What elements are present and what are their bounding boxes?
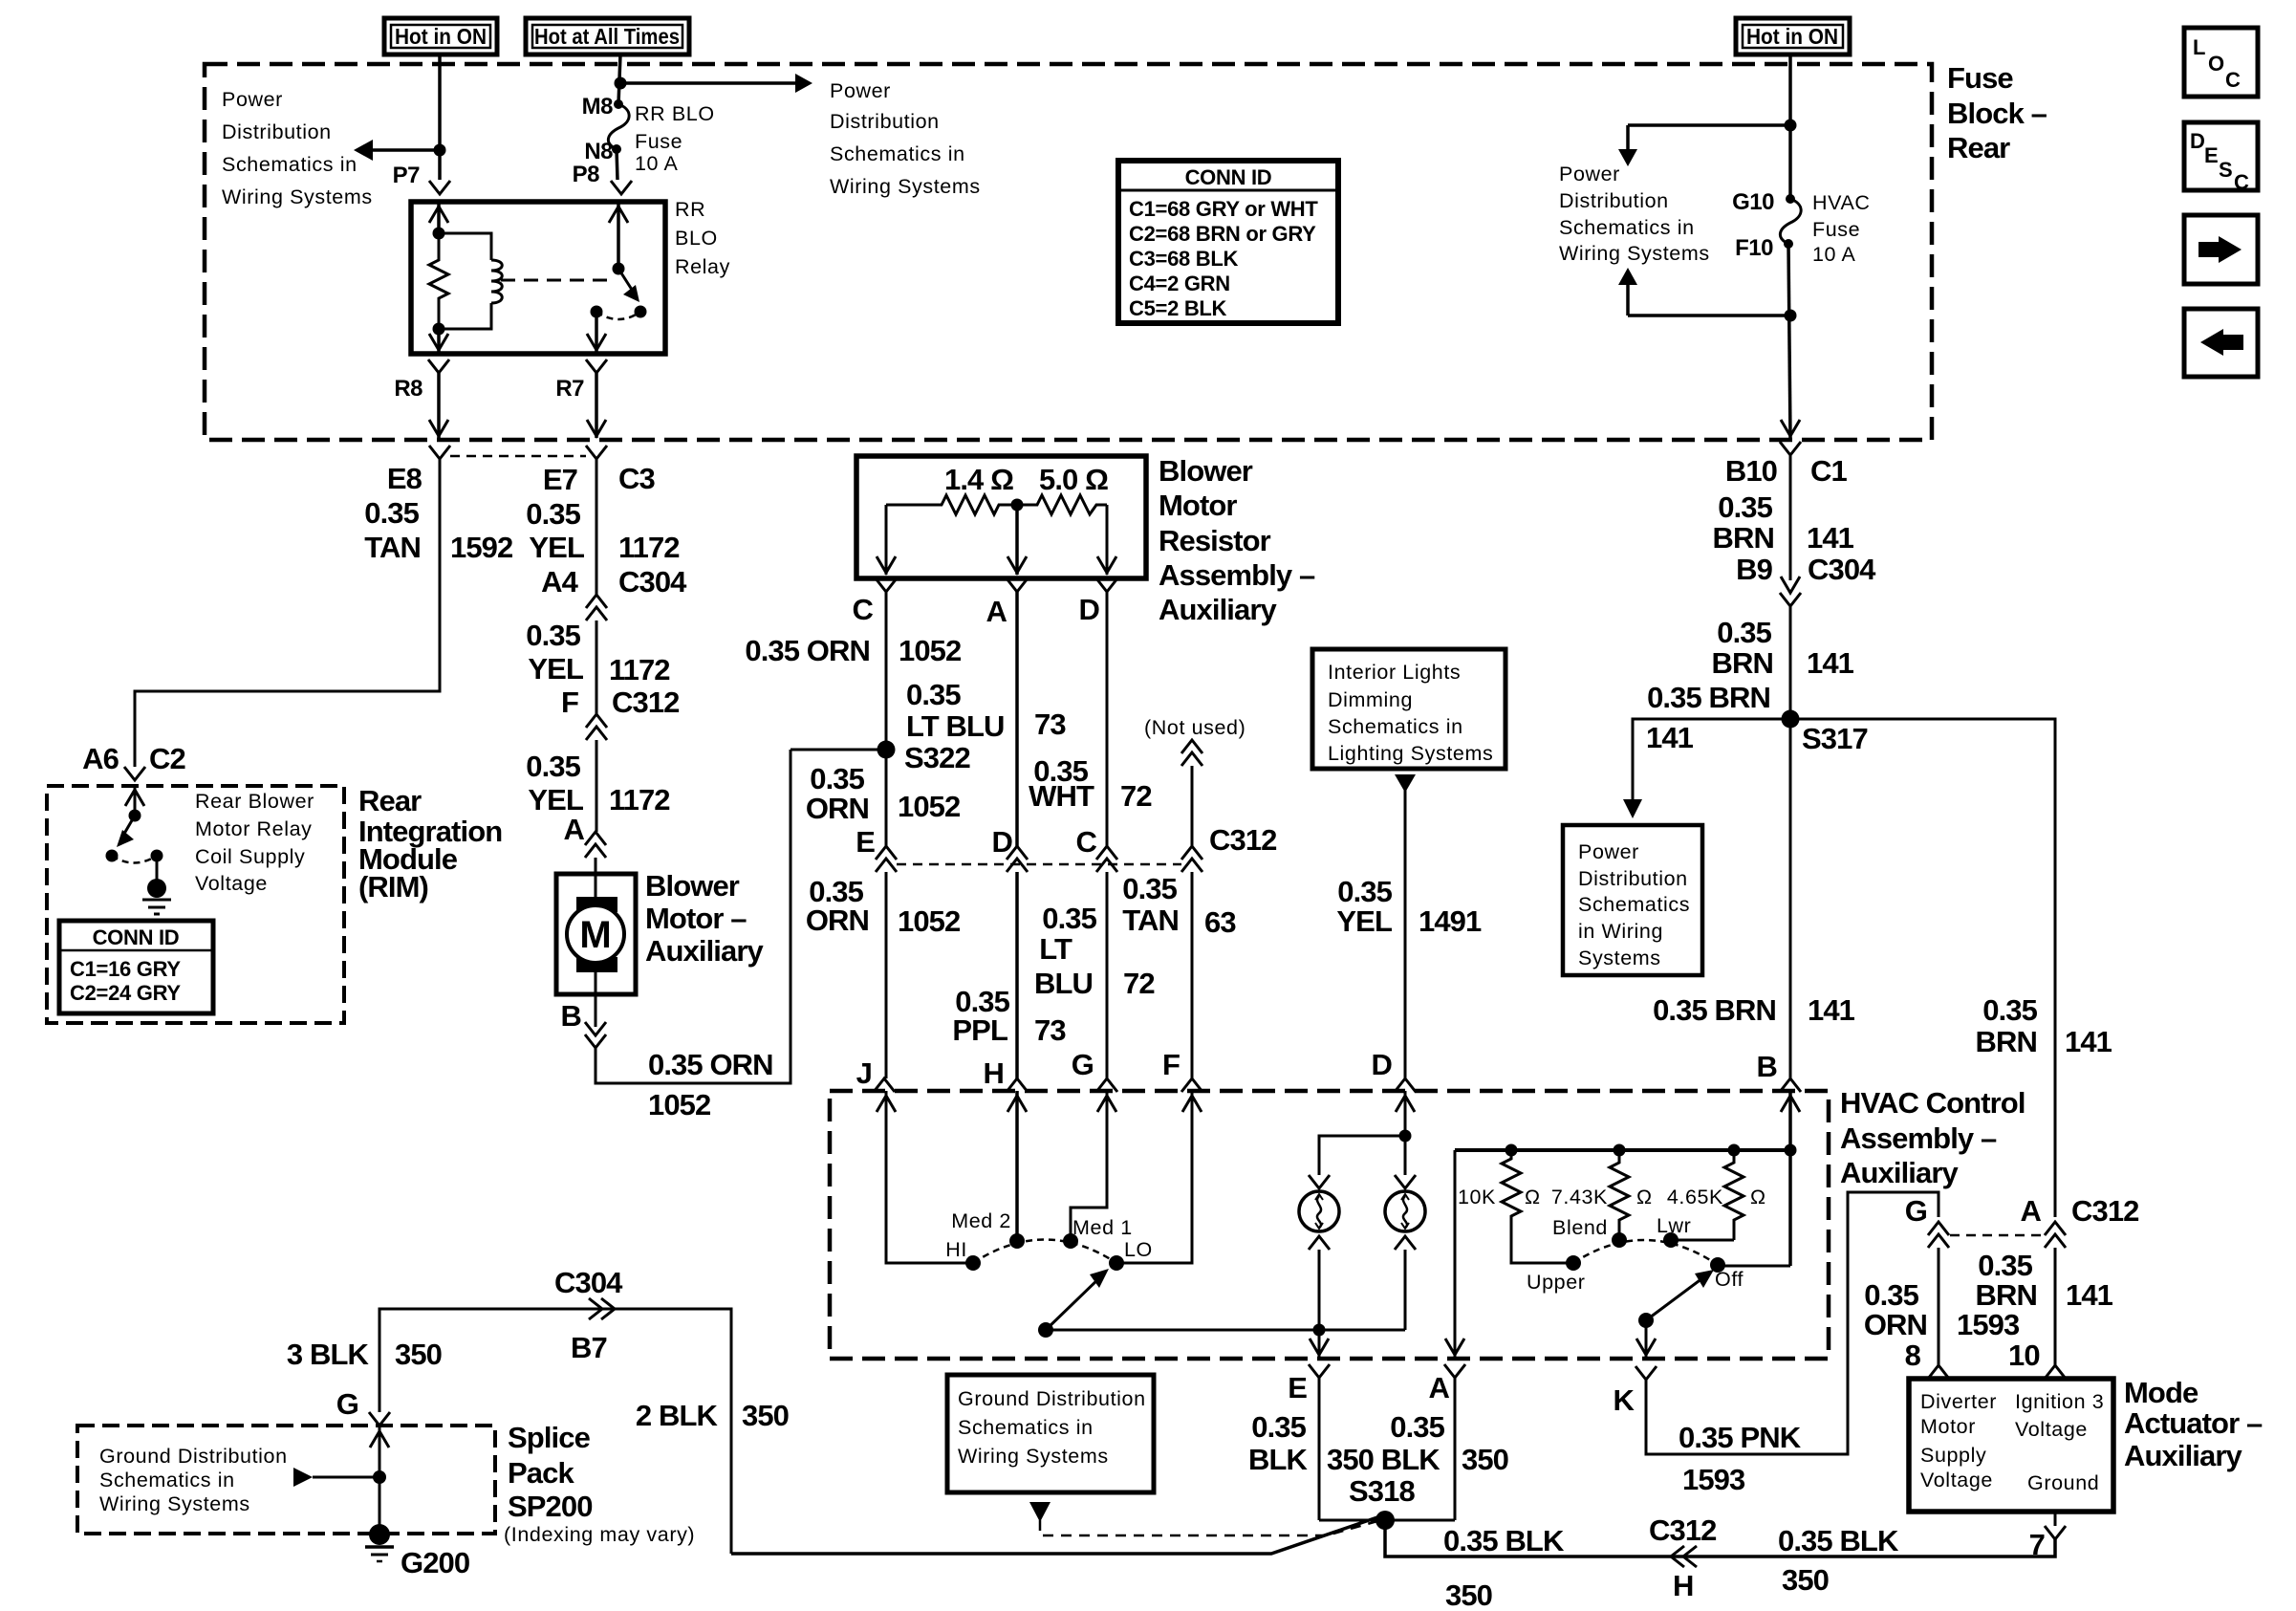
svg-text:Auxiliary: Auxiliary <box>1159 593 1278 626</box>
node splice G200 feed <box>373 1470 386 1484</box>
wire TAN 63 to HVAC F <box>1191 872 1194 1078</box>
switch fan selector arm <box>1038 1322 1053 1338</box>
svg-text:10 A: 10 A <box>1812 243 1856 266</box>
relay coil top node <box>433 228 445 240</box>
wire Hot in ON to relay P7 <box>438 54 442 180</box>
relay output contact node <box>591 306 603 318</box>
wire S322 branch to blower run <box>791 749 886 751</box>
wire ORN 8 to mode actuator <box>1938 1248 1940 1365</box>
svg-text:Hot in ON: Hot in ON <box>1746 24 1838 49</box>
wire Hot in ON right down <box>1788 54 1792 199</box>
connector chevron F <box>1181 1078 1202 1092</box>
svg-text:Wiring Systems: Wiring Systems <box>222 185 373 208</box>
svg-text:Ω: Ω <box>1525 1186 1541 1208</box>
node resistor tap A <box>1011 499 1024 512</box>
connector C304 right inline <box>1781 577 1800 593</box>
ground G200 symbol <box>369 1524 390 1545</box>
svg-text:350: 350 <box>1782 1563 1829 1597</box>
connector chevron E8 <box>429 446 450 459</box>
svg-text:0.35: 0.35 <box>1390 1410 1444 1444</box>
wire to lamp 1 <box>1319 1136 1405 1175</box>
contact node left <box>106 850 119 862</box>
wire bus left drop to A pin <box>1454 1150 1457 1357</box>
resistor relay coil shunt <box>429 233 448 329</box>
wire BRN 141 B10 to C304 <box>1789 455 1792 580</box>
svg-text:Ground Distribution: Ground Distribution <box>958 1387 1146 1410</box>
solid arrowhead armature <box>623 285 639 302</box>
svg-text:Pack: Pack <box>508 1456 574 1490</box>
connector chevron resistor D <box>1096 578 1117 592</box>
wire YEL 1172 C304 to C312 <box>596 620 598 714</box>
node Blend contact <box>1612 1232 1627 1248</box>
wire lamp1 to common <box>1318 1250 1321 1330</box>
svg-text:0.35: 0.35 <box>1251 1410 1306 1444</box>
svg-text:1592: 1592 <box>450 531 512 564</box>
svg-text:ORN: ORN <box>806 903 869 937</box>
wire 4.65K to Lwr <box>1671 1239 1734 1242</box>
node splice S318 <box>1375 1511 1395 1530</box>
connector chevron lamp1 top <box>1309 1175 1330 1188</box>
svg-text:C312: C312 <box>612 686 680 719</box>
svg-text:YEL: YEL <box>529 531 584 564</box>
svg-text:F10: F10 <box>1735 235 1773 261</box>
svg-text:141: 141 <box>1807 646 1854 680</box>
svg-text:R8: R8 <box>394 376 422 402</box>
wire branch right to power distribution arrow <box>620 81 797 85</box>
wire E BLK 350 to S318 <box>1318 1378 1321 1520</box>
svg-text:Lwr: Lwr <box>1657 1214 1691 1237</box>
dashed arc driver contacts <box>112 856 157 863</box>
wire G inside HVAC to Med1 <box>1071 1091 1107 1241</box>
connector C at C312 double chevron <box>1096 846 1117 860</box>
wire B inside HVAC to resistor bus <box>1788 1091 1792 1266</box>
connector chevron lamp1 bottom <box>1309 1236 1330 1250</box>
wire contact to ground ball <box>156 856 159 882</box>
svg-text:1052: 1052 <box>898 790 960 823</box>
Hot in ON box left <box>384 18 497 54</box>
svg-text:HVAC: HVAC <box>1812 191 1871 214</box>
left arrow reference box <box>2184 309 2258 377</box>
svg-text:A: A <box>2021 1194 2042 1228</box>
svg-text:1172: 1172 <box>609 783 670 816</box>
wire ORN 1052 resistor C down <box>885 592 888 846</box>
connector chevron lamp2 bottom <box>1395 1236 1416 1250</box>
svg-text:Hot in ON: Hot in ON <box>395 24 487 49</box>
svg-text:Wiring Systems: Wiring Systems <box>958 1445 1109 1468</box>
svg-text:141: 141 <box>1646 721 1694 754</box>
svg-text:Motor –: Motor – <box>645 902 747 935</box>
svg-text:LO: LO <box>1124 1238 1153 1261</box>
node splice S317 <box>1782 710 1800 729</box>
svg-text:Distribution: Distribution <box>830 110 940 133</box>
svg-text:Distribution: Distribution <box>1578 867 1688 890</box>
connector chevron J <box>874 1078 895 1092</box>
DESC reference box <box>2184 122 2258 190</box>
svg-text:Hot at All Times: Hot at All Times <box>534 24 680 49</box>
node junction on P7 wire <box>434 144 446 157</box>
svg-text:HI: HI <box>945 1238 967 1261</box>
wire F10 down to fuse block edge <box>1788 244 1790 438</box>
relay armature arm <box>618 269 634 293</box>
wire 3 BLK 350 G to C304 B7 run <box>379 1309 731 1554</box>
connector chevron G splice pack <box>369 1412 390 1426</box>
svg-text:Rear Blower: Rear Blower <box>195 790 314 813</box>
node bus 7.43K <box>1614 1144 1626 1157</box>
relay coil bottom node <box>433 323 445 336</box>
wire Hot at All Times down <box>618 54 620 104</box>
connector chevron R7 <box>586 359 607 373</box>
svg-text:C304: C304 <box>618 565 687 599</box>
svg-text:Ignition 3: Ignition 3 <box>2015 1390 2104 1413</box>
svg-text:Auxiliary: Auxiliary <box>2124 1439 2243 1472</box>
svg-text:Voltage: Voltage <box>195 872 268 895</box>
svg-text:Lighting Systems: Lighting Systems <box>1328 742 1493 765</box>
svg-text:0.35: 0.35 <box>1718 490 1772 524</box>
connector chevron lamp2 top <box>1395 1175 1416 1188</box>
svg-text:0.35: 0.35 <box>364 496 419 530</box>
motor brush bottom <box>576 957 617 972</box>
svg-text:M8: M8 <box>582 94 613 120</box>
svg-text:1.4 Ω: 1.4 Ω <box>944 463 1013 496</box>
svg-text:LT BLU: LT BLU <box>906 709 1005 743</box>
svg-text:0.35 BRN: 0.35 BRN <box>1647 681 1770 714</box>
wire E8 TAN 1592 to RIM A6 <box>135 459 440 767</box>
motor brush top <box>576 897 617 912</box>
node junction above G10 <box>1785 120 1797 132</box>
inductor relay coil humps <box>491 260 502 303</box>
mode actuator auxiliary box <box>1909 1379 2113 1512</box>
node splice S322 <box>877 741 896 759</box>
svg-text:TAN: TAN <box>1122 903 1179 937</box>
svg-text:C4=2 GRN: C4=2 GRN <box>1129 272 1230 295</box>
svg-text:in Wiring: in Wiring <box>1578 920 1663 943</box>
lamp interior illumination 1 <box>1299 1191 1339 1231</box>
node LO contact <box>1109 1255 1124 1271</box>
svg-text:Blend: Blend <box>1552 1216 1608 1239</box>
svg-text:K: K <box>1614 1383 1635 1417</box>
svg-text:Schematics in: Schematics in <box>1328 715 1463 738</box>
svg-text:0.35: 0.35 <box>1337 875 1392 908</box>
svg-text:L: L <box>2193 35 2205 59</box>
dashed connector line C312 middle <box>897 863 1181 866</box>
svg-text:Schematics in: Schematics in <box>222 153 357 176</box>
wire G down to G200 <box>379 1426 381 1528</box>
motor M circle <box>567 905 624 963</box>
svg-text:C: C <box>2234 170 2249 194</box>
svg-text:Power: Power <box>1559 163 1620 185</box>
svg-text:1491: 1491 <box>1419 904 1482 938</box>
relay armature pivot node <box>613 263 625 275</box>
svg-text:O: O <box>2208 52 2224 76</box>
svg-text:1052: 1052 <box>899 634 961 667</box>
wire H inside HVAC to Med2 <box>1015 1091 1019 1241</box>
svg-text:Interior Lights: Interior Lights <box>1328 661 1461 684</box>
connector blower A inline double chevron <box>585 832 606 845</box>
svg-text:H: H <box>1673 1569 1694 1602</box>
node bus 10K <box>1505 1144 1518 1157</box>
Hot in ON box right <box>1736 18 1850 54</box>
svg-text:G200: G200 <box>401 1546 469 1579</box>
connector chevron B HVAC <box>1780 1078 1801 1092</box>
svg-text:Ω: Ω <box>1750 1186 1766 1208</box>
svg-text:Fuse: Fuse <box>1812 218 1860 241</box>
svg-text:0.35: 0.35 <box>1122 872 1177 905</box>
svg-text:10 A: 10 A <box>635 152 679 175</box>
svg-text:BRN: BRN <box>1976 1025 2037 1058</box>
svg-text:0.35 ORN: 0.35 ORN <box>745 634 870 667</box>
svg-text:Schematics in: Schematics in <box>958 1416 1094 1439</box>
wire S317 right branch to A C312 <box>1790 719 2055 1217</box>
svg-text:(Indexing may vary): (Indexing may vary) <box>504 1523 695 1546</box>
connector chevron resistor A <box>1007 578 1028 592</box>
svg-text:BLU: BLU <box>1034 967 1093 1000</box>
connector chevron E7/C3 <box>586 446 607 459</box>
svg-text:P7: P7 <box>393 163 421 188</box>
svg-text:C3=68 BLK: C3=68 BLK <box>1129 247 1238 271</box>
svg-text:Rear: Rear <box>1947 131 2010 164</box>
svg-text:Schematics: Schematics <box>1578 893 1690 916</box>
svg-text:0.35 BLK: 0.35 BLK <box>1778 1524 1899 1557</box>
svg-text:RR: RR <box>675 198 705 221</box>
dashed arc fan switch <box>973 1240 1116 1264</box>
svg-text:Wiring Systems: Wiring Systems <box>830 175 981 198</box>
svg-text:(Not used): (Not used) <box>1144 716 1245 739</box>
svg-text:Dimming: Dimming <box>1328 688 1413 711</box>
svg-text:Ω: Ω <box>1636 1186 1653 1208</box>
svg-text:M: M <box>579 914 611 956</box>
svg-text:4.65K: 4.65K <box>1667 1186 1723 1208</box>
wire 2 BLK 350 bottom run to S318 <box>731 1516 1380 1554</box>
svg-text:10: 10 <box>2008 1339 2040 1372</box>
wire A6 into RIM <box>134 786 137 816</box>
svg-text:E7: E7 <box>543 463 577 496</box>
svg-text:1593: 1593 <box>1957 1308 2020 1341</box>
node relay driver <box>129 810 141 822</box>
wire WHT 72 resistor D down <box>1106 592 1109 846</box>
wire mode resistor bus <box>1455 1148 1790 1152</box>
wire YEL 1172 C312 to blower A <box>596 740 598 832</box>
svg-text:SP200: SP200 <box>508 1490 593 1523</box>
wire resistor drop A <box>1015 505 1019 575</box>
node junction above M8 <box>615 77 627 90</box>
wire S318 bar <box>1319 1519 1455 1522</box>
connector chevron P8 <box>611 181 632 194</box>
svg-text:G: G <box>1905 1194 1927 1228</box>
wire E7 YEL 1172 down <box>596 459 598 595</box>
svg-text:S: S <box>2219 158 2232 182</box>
connector chevron mode actuator 7 <box>2045 1526 2066 1539</box>
svg-text:Voltage: Voltage <box>2015 1418 2088 1441</box>
connector chevron mode 10 <box>2045 1365 2066 1379</box>
resistor 1.4 ohm <box>886 495 1017 514</box>
CONN ID table fuse block connectors <box>1118 161 1338 323</box>
wire resistor drop C <box>885 505 888 575</box>
svg-text:BRN: BRN <box>1976 1278 2037 1312</box>
connector D at C312 double chevron <box>1007 846 1028 860</box>
wire 10K to Upper <box>1511 1224 1573 1263</box>
svg-text:7: 7 <box>2029 1528 2045 1561</box>
svg-text:A: A <box>986 595 1007 628</box>
wire branch left to power distribution down arrow <box>1628 123 1790 127</box>
lamp interior illumination 2 <box>1385 1191 1425 1231</box>
fuse RR BLO 10A (M8-N8) <box>614 99 623 109</box>
resistor 4.65K <box>1724 1150 1744 1240</box>
svg-text:BLK: BLK <box>1248 1443 1309 1476</box>
blower motor resistor assembly box <box>856 456 1146 578</box>
wire 0.35 PNK 1593 K to mode actuator G <box>1646 1192 1939 1454</box>
svg-text:Voltage: Voltage <box>1920 1469 1993 1491</box>
svg-text:Coil Supply: Coil Supply <box>195 845 305 868</box>
node Med2 contact <box>1009 1233 1025 1249</box>
svg-text:Splice: Splice <box>508 1421 591 1454</box>
svg-text:Systems: Systems <box>1578 947 1661 969</box>
svg-text:0.35: 0.35 <box>526 619 580 652</box>
svg-text:D: D <box>1372 1048 1393 1081</box>
connector chevron B10/C1 <box>1780 442 1801 455</box>
node junction below F10 <box>1785 310 1797 322</box>
wire mode common K drop <box>1645 1320 1648 1357</box>
svg-text:HVAC Control: HVAC Control <box>1840 1086 2025 1120</box>
svg-text:0.35 PNK: 0.35 PNK <box>1679 1421 1802 1454</box>
node lamp feed junction <box>1399 1130 1412 1143</box>
wire motor B out <box>595 963 597 1027</box>
svg-text:Motor Relay: Motor Relay <box>195 817 313 840</box>
wire branch left to power distribution up arrow <box>1628 314 1790 317</box>
connector C304 double chevron right <box>589 1298 615 1319</box>
svg-text:Ground Distribution: Ground Distribution <box>99 1445 288 1468</box>
wire E drop to bottom <box>1318 1330 1321 1357</box>
svg-text:141: 141 <box>1807 521 1854 555</box>
svg-text:S322: S322 <box>904 741 970 774</box>
svg-text:Rear: Rear <box>358 784 422 817</box>
svg-text:Schematics in: Schematics in <box>1559 216 1695 239</box>
svg-text:F: F <box>561 686 578 719</box>
wire coil bottom to R8 pin <box>437 329 441 354</box>
node Off contact <box>1710 1257 1725 1273</box>
wire A BLK 350 to S318 <box>1454 1378 1457 1520</box>
svg-text:LT: LT <box>1039 932 1072 966</box>
svg-text:F: F <box>1162 1048 1180 1081</box>
svg-text:B: B <box>561 999 582 1033</box>
wire LT BLU 72 C to HVAC G <box>1106 872 1109 1078</box>
svg-text:Off: Off <box>1715 1268 1744 1291</box>
solid arrow right power distribution <box>795 74 812 93</box>
wire N8 to relay P8 <box>617 149 617 180</box>
svg-text:E: E <box>856 825 875 859</box>
svg-text:D: D <box>1079 593 1100 626</box>
svg-text:YEL: YEL <box>528 783 583 816</box>
svg-text:C2=68 BRN or GRY: C2=68 BRN or GRY <box>1129 222 1316 246</box>
svg-text:Auxiliary: Auxiliary <box>1840 1156 1960 1189</box>
connector chevron A6/C2 <box>124 767 145 780</box>
svg-text:B10: B10 <box>1725 454 1777 488</box>
wire contact to R7 pin <box>595 312 598 354</box>
wire lamp2 to common <box>1404 1250 1407 1330</box>
svg-text:7.43K: 7.43K <box>1551 1186 1608 1208</box>
wire J inside HVAC to HI <box>886 1091 973 1263</box>
contact node right <box>151 850 163 862</box>
svg-text:C: C <box>853 593 874 626</box>
svg-text:0.35: 0.35 <box>1982 993 2037 1027</box>
svg-text:C1: C1 <box>1810 454 1847 488</box>
svg-text:72: 72 <box>1120 779 1152 813</box>
svg-text:Fuse: Fuse <box>1947 61 2013 95</box>
svg-text:Supply: Supply <box>1920 1444 1986 1467</box>
svg-text:0.35: 0.35 <box>526 750 580 783</box>
svg-text:Med 2: Med 2 <box>951 1209 1011 1232</box>
Rear Integration Module dashed box <box>47 786 344 1023</box>
svg-text:C5=2 BLK: C5=2 BLK <box>1129 296 1227 320</box>
svg-text:S317: S317 <box>1802 722 1868 755</box>
svg-text:10K: 10K <box>1458 1186 1496 1208</box>
svg-text:A6: A6 <box>82 742 119 775</box>
switch mode selector arm <box>1638 1313 1654 1328</box>
fuse block - rear dashed outline <box>205 64 1932 440</box>
wire lamp2 drop <box>1404 1136 1407 1175</box>
svg-text:H: H <box>984 1056 1005 1090</box>
right arrow reference box <box>2184 215 2258 284</box>
power distribution reference box right <box>1563 825 1702 975</box>
svg-text:CONN ID: CONN ID <box>93 925 180 949</box>
svg-text:350: 350 <box>395 1338 442 1371</box>
node lamp common junction <box>1313 1324 1326 1337</box>
connector A double chevron C312 <box>2045 1222 2066 1235</box>
svg-text:Auxiliary: Auxiliary <box>645 934 765 968</box>
connector at C312 fourth double chevron <box>1181 846 1202 860</box>
svg-text:8: 8 <box>1905 1339 1921 1372</box>
solid triangle under interior lights box <box>1395 774 1416 793</box>
node Upper contact <box>1566 1255 1581 1271</box>
svg-text:PPL: PPL <box>952 1013 1007 1047</box>
svg-text:Med 1: Med 1 <box>1072 1216 1133 1239</box>
svg-text:YEL: YEL <box>528 652 583 686</box>
svg-text:Relay: Relay <box>675 255 730 278</box>
svg-text:D: D <box>2190 129 2205 153</box>
connector C312 inline double chevron <box>586 714 607 728</box>
svg-text:P8: P8 <box>573 162 600 187</box>
svg-text:Block –: Block – <box>1947 97 2047 130</box>
wire feed to splice node <box>313 1476 379 1479</box>
svg-text:350: 350 <box>1462 1443 1508 1476</box>
svg-text:(RIM): (RIM) <box>358 870 428 903</box>
svg-text:A4: A4 <box>541 565 578 599</box>
svg-text:YEL: YEL <box>1336 904 1392 938</box>
svg-text:Fuse: Fuse <box>635 130 682 153</box>
svg-text:BRN: BRN <box>1713 521 1774 555</box>
connector E at C312 double chevron <box>876 846 897 860</box>
blower motor auxiliary box <box>556 874 636 994</box>
svg-text:1052: 1052 <box>898 904 960 938</box>
svg-text:141: 141 <box>1808 993 1855 1027</box>
svg-text:C312: C312 <box>1209 823 1277 857</box>
svg-text:C312: C312 <box>1649 1513 1717 1547</box>
solid triangle ground distribution feed <box>293 1468 313 1487</box>
svg-text:Schematics in: Schematics in <box>830 142 965 165</box>
relay RR BLO box <box>411 202 665 354</box>
svg-text:G: G <box>1072 1048 1094 1081</box>
svg-text:141: 141 <box>2066 1278 2113 1312</box>
svg-text:S318: S318 <box>1349 1474 1415 1508</box>
svg-text:Schematics in: Schematics in <box>99 1469 235 1491</box>
connector chevron A S318 <box>1444 1364 1465 1378</box>
svg-text:A: A <box>564 813 585 846</box>
splice pack SP200 dashed box <box>77 1426 495 1534</box>
fuse HVAC 10A (G10-F10) <box>1786 194 1795 204</box>
svg-text:B9: B9 <box>1736 553 1772 586</box>
svg-text:0.35 BRN: 0.35 BRN <box>1653 993 1776 1027</box>
svg-text:E: E <box>2204 143 2218 167</box>
svg-text:RR BLO: RR BLO <box>635 102 715 125</box>
